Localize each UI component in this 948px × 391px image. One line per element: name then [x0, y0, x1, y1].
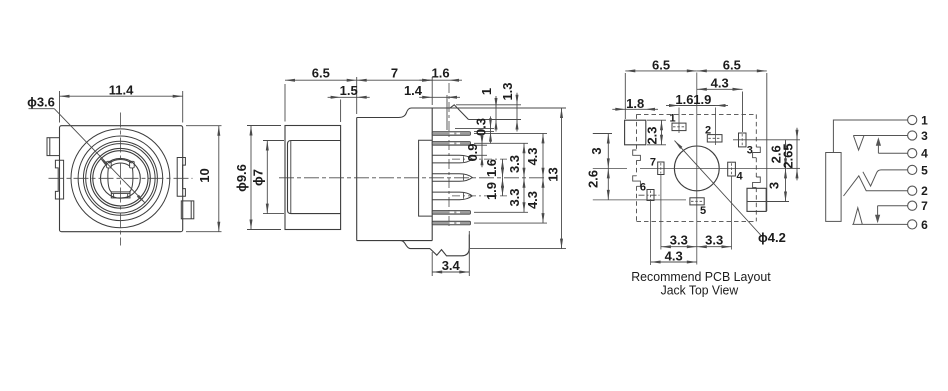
front view: jack hole circle dia 3.6: [101, 158, 141, 198]
schematic: sleeve contact and wire pin 6: [852, 208, 907, 225]
svg-text:4.3: 4.3: [525, 147, 540, 165]
svg-text:1: 1: [669, 113, 675, 125]
svg-text:0.3: 0.3: [474, 118, 489, 136]
front view: right shield bracket: [177, 158, 185, 197]
dimension 4.3 pcb bottom: [651, 249, 697, 264]
front view: barrel circle: [78, 136, 163, 221]
svg-text:3.4: 3.4: [442, 258, 461, 273]
dimension 2.6 pcb left lower: [586, 168, 610, 200]
front view: top-left mounting tab: [47, 138, 60, 156]
svg-text:1.3: 1.3: [500, 82, 515, 100]
svg-text:1.9: 1.9: [693, 92, 711, 107]
pcb layout: horizontal centerline right segment: [640, 167, 791, 169]
schematic: pin 4 terminal: [908, 147, 929, 161]
svg-text:2.65: 2.65: [780, 143, 795, 168]
front view: outer flange circle: [71, 129, 170, 228]
side view: bushing barrel dia 9.6: [285, 126, 341, 230]
dimension 1.6 pin offset: [419, 66, 462, 82]
dimension 1.4 pin shoulder: [404, 83, 460, 130]
dimension 3.4 bottom step width: [432, 231, 469, 276]
dimension 3 pcb right lower: [747, 168, 789, 201]
svg-text:7: 7: [391, 66, 398, 81]
svg-text:10: 10: [197, 168, 212, 182]
front view: keyed contact profile: [107, 159, 135, 197]
svg-text:2.3: 2.3: [645, 126, 660, 144]
pcb layout: component outline (dashed): [637, 114, 757, 221]
svg-text:3: 3: [589, 147, 604, 154]
dimension 3 pcb left upper: [589, 134, 612, 169]
svg-text:7: 7: [650, 157, 656, 169]
front view: horizontal centerline: [49, 177, 193, 179]
pcb layout: right break jog lower: [753, 177, 761, 188]
pcb pad 5: [690, 198, 706, 217]
front view: bottom-right mounting tab: [181, 201, 194, 219]
schematic: ring switch contact wire pin 5: [863, 170, 908, 186]
svg-text:6.5: 6.5: [312, 66, 330, 81]
dimension 3.3 pcb bottom right: [697, 232, 732, 248]
dimension 1.3 latch height overall: [500, 82, 519, 131]
pcb layout: left break jog lower: [633, 176, 641, 187]
svg-text:6.5: 6.5: [723, 57, 741, 72]
schematic: pin 2 terminal: [908, 184, 929, 198]
svg-text:4.3: 4.3: [665, 249, 683, 264]
svg-text:1: 1: [479, 88, 494, 95]
svg-text:3.3: 3.3: [705, 232, 723, 247]
svg-text:3.3: 3.3: [507, 155, 522, 173]
pcb pad 1: [669, 113, 686, 131]
dimension 1.5 barrel step: [328, 83, 370, 122]
schematic: switch wire pin 7 with arrow: [875, 206, 908, 224]
svg-text:4: 4: [736, 171, 743, 183]
schematic: pin 3 terminal: [908, 129, 929, 143]
pcb layout: shield pad top-left: [625, 120, 646, 145]
svg-text:5: 5: [921, 163, 928, 177]
svg-text:ϕ3.6: ϕ3.6: [27, 94, 55, 109]
pcb pad 4: [728, 162, 744, 182]
schematic: pin 7 terminal: [908, 199, 929, 213]
schematic: pin 1 terminal: [908, 114, 929, 128]
svg-text:Jack Top View: Jack Top View: [661, 282, 739, 297]
side view: main housing body: [357, 108, 450, 241]
svg-text:3.3: 3.3: [670, 232, 688, 247]
svg-text:0.9: 0.9: [465, 143, 480, 161]
pcb pad 2: [705, 125, 722, 143]
extension lines: hump top and barb: [450, 105, 566, 120]
dimension 7 housing length: [357, 66, 433, 105]
dimension 6.5 pcb left: [625, 57, 767, 211]
dimension 4.3 pin1-pin4 pitch: [525, 133, 544, 177]
dimension 2.3 shield pad height: [645, 120, 667, 145]
dimension 6.5 pcb right: [697, 57, 767, 72]
schematic: pin 5 terminal: [908, 163, 929, 177]
caption: Recommend PCB Layout: [631, 269, 771, 284]
svg-text:13: 13: [545, 167, 560, 181]
dimension dia 9.6 bushing: [234, 126, 281, 230]
svg-text:5: 5: [700, 205, 706, 217]
jack pin 7 (flat solder pin): [432, 221, 470, 225]
svg-text:1.6: 1.6: [484, 159, 499, 177]
dimension dia 7 bushing front: [250, 141, 284, 214]
pcb layout: vertical centerline: [696, 73, 698, 265]
jack pin 3 (round contact pin): [432, 155, 472, 163]
svg-text:1.5: 1.5: [340, 83, 358, 98]
dimension 0.9 pin gap: [465, 133, 484, 167]
svg-text:3: 3: [747, 145, 753, 157]
extension lines: pin rows: [452, 128, 566, 248]
dimension 3.3 pin2-pin4 pitch: [507, 143, 526, 178]
side view: top latch barb: [450, 105, 469, 120]
jack pin 6 (flat solder pin): [432, 211, 470, 215]
front view: jack body outline: [60, 126, 183, 232]
svg-text:ϕ9.6: ϕ9.6: [234, 164, 249, 192]
pcb pad 6: [640, 182, 654, 201]
side view: inner pin-block recess: [419, 140, 433, 216]
pcb layout: right break jog upper: [753, 147, 761, 158]
front view: bushing ring inner: [86, 144, 155, 213]
jack pin 5 (round contact pin): [432, 192, 472, 200]
svg-text:4.3: 4.3: [711, 76, 729, 91]
dimension 6.5 bushing length: [285, 66, 357, 122]
svg-text:1.6: 1.6: [432, 66, 450, 81]
side view: bushing front dia 7: [288, 141, 341, 214]
svg-text:2: 2: [705, 125, 711, 137]
pcb layout: center hole dia 4.2: [674, 146, 719, 191]
dimension 2.65 pcb right: [780, 128, 800, 181]
caption: Jack Top View: [661, 282, 739, 297]
svg-text:1: 1: [921, 114, 928, 128]
svg-text:11.4: 11.4: [109, 82, 134, 97]
svg-text:1.6: 1.6: [675, 92, 693, 107]
svg-text:2: 2: [921, 184, 928, 198]
svg-text:ϕ7: ϕ7: [250, 169, 265, 186]
dimension 1.6 pad1 offset: [666, 92, 728, 107]
dimension 4.3 pin4-pin7 pitch: [525, 178, 544, 223]
schematic: sleeve terminal bar: [826, 153, 841, 222]
dimension 11.4 front width: [60, 82, 183, 122]
dimension 0.3 pin1 offset: [474, 116, 493, 143]
svg-text:6: 6: [921, 218, 928, 232]
front view: vertical centerline: [119, 113, 121, 246]
side view: horizontal centerline: [279, 177, 547, 179]
svg-text:3: 3: [921, 129, 928, 143]
jack pin 1 (flat solder pin): [432, 132, 470, 136]
front view: bushing ring outer: [83, 141, 157, 215]
dimension 3.3 pin4-pin6 pitch: [507, 178, 526, 213]
schematic: tip contact and wire pin 3: [853, 136, 907, 151]
svg-text:4.3: 4.3: [525, 191, 540, 209]
schematic: wire sleeve to pin 1: [833, 120, 907, 153]
svg-text:3: 3: [767, 182, 782, 189]
jack pin 2 (flat solder pin): [432, 142, 470, 146]
svg-text:ϕ4.2: ϕ4.2: [758, 230, 786, 245]
pcb layout: left break jog upper: [633, 150, 641, 160]
schematic: pin 6 terminal: [908, 218, 929, 232]
svg-text:4: 4: [921, 147, 928, 161]
dimension 13 overall height: [545, 108, 563, 249]
jack pin 4 (round contact pin): [432, 174, 472, 182]
svg-text:2.6: 2.6: [586, 170, 601, 188]
pcb pad 3: [739, 133, 753, 157]
dimension 1.6 pin3-pin4 pitch: [484, 159, 504, 178]
pcb pad centerlines: [593, 108, 800, 266]
schematic: switch wire pin 4 with arrow: [876, 137, 908, 153]
svg-text:1.9: 1.9: [484, 182, 499, 200]
svg-text:6.5: 6.5: [652, 57, 670, 72]
pcb layout: shield pad bottom-right: [747, 188, 766, 211]
svg-text:1.4: 1.4: [404, 83, 423, 98]
pcb layout: horizontal centerline left segment: [593, 167, 627, 169]
front view: left shield bracket: [55, 160, 63, 199]
pcb pad 7: [650, 157, 664, 175]
dimension 1.8 shield pad width: [612, 96, 658, 111]
svg-text:7: 7: [921, 199, 928, 213]
dimension dia 4.2 leader: [675, 141, 786, 245]
dimension 3.3 pcb bottom left: [661, 232, 697, 248]
svg-text:3.3: 3.3: [507, 188, 522, 206]
dimension 2.6 pcb right: [769, 140, 788, 169]
svg-text:1.8: 1.8: [626, 96, 644, 111]
schematic: ring contact lever wire pin 2: [844, 176, 908, 196]
front view: nose ring inner: [93, 151, 148, 206]
dimension dia 3.6 leader: [27, 94, 145, 203]
side view: pin bend reference line: [448, 83, 450, 229]
side view: bottom shield step and barb: [401, 235, 470, 256]
dimension 4.3 pcb pad3: [697, 76, 743, 132]
front view: nose ring outer: [91, 148, 151, 208]
dimension 1 latch height: [479, 88, 498, 132]
svg-text:6: 6: [640, 182, 646, 194]
dimension 10 front height: [186, 126, 222, 232]
dimension 1.9 pin4-pin5 pitch: [484, 178, 504, 200]
